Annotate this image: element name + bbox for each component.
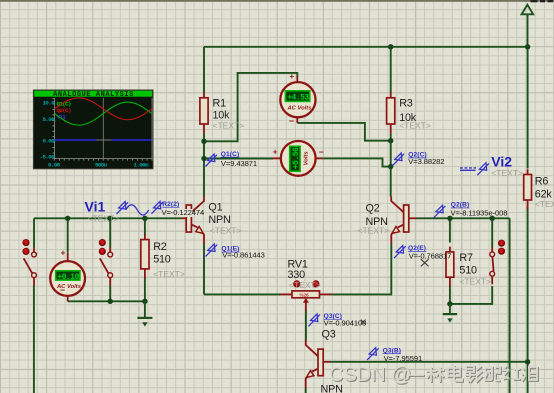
svg-text:%26: %26 [300, 293, 310, 298]
svg-text:Q1: Q1 [208, 202, 222, 214]
svg-text:0.00: 0.00 [42, 137, 55, 144]
wire: ground node to right switch bottom [450, 286, 492, 304]
wire: left bottom rail meter to ground [68, 300, 145, 302]
wire: mid voltmeter minus to Q2C node (jog) [323, 158, 390, 166]
svg-text:5.00: 5.00 [42, 116, 55, 123]
voltage probe arrow R2(2) [151, 201, 163, 214]
wire: rail to R6 [527, 47, 529, 169]
voltage probe arrow Q2(E) [394, 245, 406, 258]
svg-text:<TEXT>: <TEXT> [153, 269, 185, 279]
svg-text:<TEXT>: <TEXT> [491, 168, 523, 178]
wire: R2 bottom [144, 278, 146, 302]
voltage probe arrow Vi1 gen arrow [117, 202, 129, 215]
svg-text:V=-0.861443: V=-0.861443 [222, 251, 265, 260]
svg-text:<TEXT>: <TEXT> [459, 277, 491, 287]
voltage probe arrow Q2(C) [393, 153, 405, 166]
svg-text:<TEXT>: <TEXT> [213, 121, 245, 131]
svg-text:Q3: Q3 [322, 329, 336, 341]
graph trace Q2(C) red [55, 98, 153, 120]
graph x labels [48, 161, 149, 168]
graph gridlines [55, 98, 153, 159]
graph trace Q1(C) green [55, 102, 153, 125]
svg-text:CSDN @: CSDN @ [329, 364, 412, 386]
ground (right, under R7) [443, 304, 457, 323]
voltage probe arrow Q1(E) [206, 244, 218, 257]
wire: Q2 base node rail [417, 217, 510, 219]
svg-text:<TEXT>: <TEXT> [358, 226, 390, 236]
svg-text:NPN: NPN [208, 214, 230, 226]
graph y labels [40, 100, 56, 161]
wire: Q1 emitter down [203, 244, 205, 295]
svg-text:Volts: Volts [304, 151, 310, 166]
potentiometer RV1 330 [280, 259, 331, 312]
svg-text:510: 510 [459, 265, 477, 277]
wire: rail to R1 [203, 47, 205, 93]
resistor R2 [141, 234, 185, 279]
wire: RV1 wiper to Q3 collector [305, 311, 307, 341]
svg-text:500u: 500u [95, 161, 108, 168]
wire: Q1 collector node column [203, 141, 205, 196]
x marker near Q2(E) [421, 259, 429, 266]
wire: base node to right switch top [491, 218, 493, 247]
wire: Q1C node to mid voltmeter plus [204, 158, 273, 160]
voltmeter top AC Volts +4.53 [280, 72, 315, 125]
svg-text:Vi2: Vi2 [491, 153, 512, 169]
voltmeter left AC Volts +0.10 [50, 249, 85, 302]
watermark glyph 电 [449, 366, 463, 382]
clipped +12V label fragment top right [531, 0, 554, 2]
svg-text:10.0: 10.0 [42, 100, 55, 107]
svg-text:V=-8.11935e-008: V=-8.11935e-008 [451, 208, 508, 217]
watermark CSDN [329, 364, 539, 387]
RV1 wiper arrow [305, 302, 307, 311]
resistor R7 [446, 247, 491, 287]
svg-text:R6: R6 [535, 176, 549, 188]
svg-text:Q2: Q2 [366, 203, 380, 215]
svg-text:V=-0.904108: V=-0.904108 [324, 319, 367, 328]
resistor R6 [524, 169, 554, 209]
transistor Q3 NPN [306, 329, 343, 393]
wire: left switch top drop [33, 218, 35, 247]
svg-text:V=3.88282: V=3.88282 [408, 157, 444, 166]
wire: R1 bottom to node [203, 134, 205, 142]
wire: Q3 base rail [330, 361, 528, 363]
wire: left switch bottom long drop [33, 286, 35, 393]
graph axes [52, 98, 152, 161]
svg-text:V=-7.95591: V=-7.95591 [384, 354, 422, 363]
voltage probe arrow Q2(B) [434, 205, 446, 218]
RV1 toggle buttons [294, 281, 319, 287]
wire: top voltmeter minus to R3 node (jog) [297, 123, 389, 141]
voltage probe arrow Q3(B) [367, 348, 379, 361]
wire: RV1 right to Q2 emitter [331, 244, 391, 295]
svg-text:-5.00: -5.00 [40, 153, 56, 160]
generator Vi1 sine symbol [126, 205, 149, 215]
svg-text:R1: R1 [213, 98, 227, 110]
graph title bar [34, 91, 152, 97]
wire: R7 top [449, 218, 451, 242]
svg-text:<TEXT>: <TEXT> [289, 280, 321, 290]
power symbol +12V arrow [522, 5, 534, 47]
wire: R2 top drop [144, 218, 146, 235]
svg-text:0.00: 0.00 [48, 161, 61, 168]
analogue analysis graph window [33, 90, 153, 169]
svg-text:10k: 10k [213, 109, 231, 121]
svg-text:+: + [273, 148, 278, 157]
svg-text:<TEXT>: <TEXT> [88, 213, 120, 223]
svg-text:Vi1: Vi1 [57, 113, 67, 120]
watermark glyph 杯 [427, 368, 445, 383]
svg-text:<TEXT>: <TEXT> [399, 121, 431, 131]
wire: node R1 to top voltmeter plus (jog) [204, 73, 297, 141]
wire: mid switch bottom [109, 286, 111, 302]
svg-text:R7: R7 [459, 252, 473, 264]
svg-text:–: – [319, 147, 324, 157]
generator Vi2 DC symbol (dashed+solid lines) [460, 168, 476, 170]
svg-text:V=-0.768817: V=-0.768817 [409, 251, 452, 260]
wire: R7 bottom to ground node [449, 286, 451, 304]
watermark glyph 一 [409, 375, 425, 377]
voltage probe arrow Q3(C) [308, 314, 320, 327]
graph legend [57, 100, 72, 120]
wire: Q3 emitter down [305, 388, 307, 393]
svg-text:ANALOGUE ANALYSIS: ANALOGUE ANALYSIS [53, 91, 134, 99]
svg-text:Q1(C): Q1(C) [221, 151, 239, 158]
wire: R3 bottom / Q2 collector column [390, 134, 392, 197]
svg-text:–: – [60, 285, 65, 295]
svg-text:–: – [289, 115, 294, 125]
svg-text:+4.53: +4.53 [287, 94, 309, 103]
svg-text:R3: R3 [399, 98, 413, 110]
switch SW2 [99, 240, 112, 286]
wire: Q1 emitter to RV1 left [204, 293, 280, 295]
svg-text:+: + [61, 249, 66, 258]
svg-text:Vi1: Vi1 [85, 198, 106, 214]
transistor Q2 NPN [358, 197, 417, 244]
svg-text:510: 510 [153, 253, 171, 265]
watermark glyph 酒 [522, 368, 539, 382]
resistor R1 [200, 93, 244, 134]
voltage probe arrow Q1(C) [205, 154, 217, 167]
wire: Q2 base node down long (x=509.6) [509, 218, 511, 393]
svg-text:+: + [290, 72, 295, 81]
watermark glyph 红 [504, 367, 521, 380]
wire: Q1 base rail to left [34, 217, 182, 219]
wire: rail to R3 [390, 47, 392, 93]
wire: R6 bottom down to Q3 base node [527, 207, 529, 393]
svg-text:V=-0.122474: V=-0.122474 [162, 208, 205, 217]
resistor R3 [387, 93, 431, 134]
svg-text:1.00m: 1.00m [134, 161, 150, 168]
voltmeter middle Volts +5.56 (rotated) [273, 141, 324, 176]
svg-text:AC Volts: AC Volts [287, 105, 313, 111]
wire: +12V top rail [204, 46, 528, 48]
ground (left, under R2) [137, 301, 152, 326]
svg-text:+0.10: +0.10 [57, 273, 79, 282]
wire: mid switch top drop [109, 218, 111, 247]
watermark glyph 配 [485, 367, 501, 382]
wire: left meter plus drop [67, 218, 69, 252]
x marker near Q3(C) [361, 320, 366, 325]
top window border [0, 0, 554, 2]
svg-text:<TEX: <TEX [535, 199, 554, 209]
svg-text:V=9.43871: V=9.43871 [221, 159, 257, 168]
svg-text:R2: R2 [153, 241, 167, 253]
graph trace Vi1 blue [55, 139, 152, 141]
switch SW1 [23, 240, 37, 286]
svg-text:<TEXT>: <TEXT> [210, 226, 242, 236]
transistor Q1 NPN [182, 197, 242, 244]
watermark glyph 影 [466, 367, 483, 383]
switch SW3 [490, 240, 505, 284]
voltage probe arrow Vi2 arrow [477, 163, 489, 176]
svg-text:+5.56: +5.56 [292, 147, 301, 169]
